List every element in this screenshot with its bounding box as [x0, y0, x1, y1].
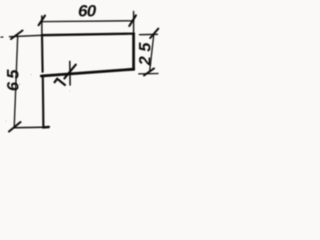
scan specks	[1, 36, 70, 121]
profile flange bottom edge	[41, 69, 134, 76]
extension line bottom of dim 25	[139, 73, 158, 75]
tick top end dim 25	[150, 29, 158, 38]
svg-text:25: 25	[137, 38, 155, 66]
extension line stub at image left edge	[1, 36, 4, 38]
tick bottom end dim 25	[144, 68, 154, 75]
extension line top of dim 65	[10, 35, 43, 36]
profile left edge lower part	[42, 77, 45, 128]
tick left end dim 60	[39, 16, 45, 26]
dimension line 65	[14, 36, 18, 128]
extension line top of dim 25	[140, 33, 158, 35]
profile left edge upper part	[41, 35, 44, 72]
extension line bottom of dim 65	[14, 126, 49, 129]
tick top end dim 65	[11, 31, 23, 40]
tick right end dim 60	[129, 15, 136, 26]
digit 1 label (rotated italic)	[55, 79, 65, 85]
profile right edge	[132, 34, 135, 70]
extension line right of dim 60	[133, 12, 135, 34]
overshoot blob at bottom extension end	[43, 126, 49, 129]
extension line left of dim 60	[41, 16, 43, 35]
leader line for dim 1	[69, 61, 71, 85]
tick bottom end dim 65	[9, 122, 21, 132]
svg-text:65: 65	[5, 66, 23, 91]
dimension line 60	[42, 20, 134, 23]
profile top edge	[42, 34, 134, 36]
tick on leader dim 1	[64, 65, 75, 79]
dimension line 25	[150, 34, 154, 71]
svg-text:60: 60	[78, 2, 97, 21]
